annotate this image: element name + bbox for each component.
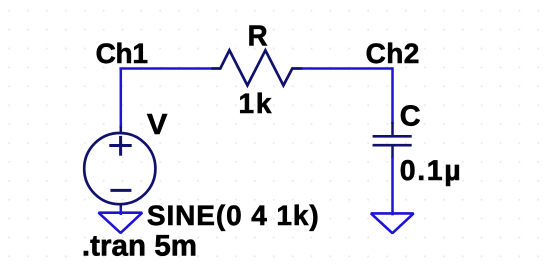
wire: Ch1 to resistor horizontal segment bbox=[119, 67, 212, 70]
svg-text:0.1µ: 0.1µ bbox=[400, 155, 462, 187]
voltage source V designator label bbox=[147, 109, 168, 141]
svg-text:1k: 1k bbox=[239, 88, 274, 119]
svg-text:C: C bbox=[400, 100, 421, 132]
svg-text:R: R bbox=[248, 20, 268, 52]
capacitor C value label 0.1u bbox=[400, 155, 462, 187]
svg-text:.tran 5m: .tran 5m bbox=[82, 230, 197, 263]
svg-text:Ch1: Ch1 bbox=[96, 38, 148, 69]
resistor R designator label bbox=[248, 20, 268, 52]
spice directive .tran 5m bbox=[82, 230, 197, 263]
svg-text:SINE(0 4 1k): SINE(0 4 1k) bbox=[147, 200, 320, 231]
resistor R value label 1k bbox=[239, 88, 274, 119]
svg-text:Ch2: Ch2 bbox=[366, 38, 420, 69]
voltage source V circle body bbox=[84, 126, 155, 209]
wire: resistor to Ch2 horizontal segment bbox=[302, 67, 393, 70]
wire: Ch1 vertical segment bbox=[120, 69, 123, 129]
ground symbol left bbox=[99, 213, 143, 233]
resistor R zigzag body bbox=[212, 50, 303, 85]
voltage source plus sign bbox=[109, 136, 131, 156]
wire: source to ground stub bbox=[120, 207, 123, 215]
wire: Ch2 vertical segment to capacitor bbox=[391, 67, 394, 124]
capacitor C body (plates and stubs) bbox=[373, 122, 412, 158]
node Ch1 label bbox=[96, 38, 148, 69]
voltage source value label SINE(0 4 1k) bbox=[147, 200, 320, 231]
voltage source minus sign bbox=[110, 189, 131, 192]
ground symbol right bbox=[371, 213, 414, 233]
wire: capacitor to ground vertical segment bbox=[391, 156, 394, 215]
capacitor C designator label bbox=[400, 100, 421, 132]
node Ch2 label bbox=[366, 38, 420, 69]
svg-text:V: V bbox=[147, 109, 168, 141]
